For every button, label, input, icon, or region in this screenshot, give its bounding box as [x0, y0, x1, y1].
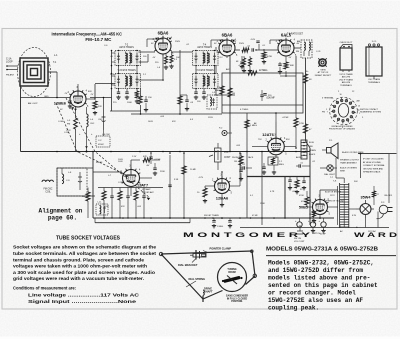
svg-text:FM ANT RECEPT: FM ANT RECEPT [315, 74, 332, 77]
svg-text:or record changer. Model: or record changer. Model [268, 290, 356, 297]
wire x230 vert [229, 56, 231, 152]
svg-text:Models 05WG-2732, 05WG-2752C,: Models 05WG-2732, 05WG-2752C, [268, 260, 374, 267]
wire IF strip [139, 51, 156, 53]
svg-text:BLUE: BLUE [309, 142, 315, 144]
converter osc chain B [87, 114, 89, 127]
right cluster C2 [103, 98, 105, 131]
svg-text:CONNECT EXTERNAL: CONNECT EXTERNAL [363, 164, 386, 167]
svg-text:AT HIGH VOLUME,: AT HIGH VOLUME, [363, 161, 382, 164]
svg-text:GANG CONDENSER: GANG CONDENSER [226, 295, 249, 298]
svg-text:Socket voltages are shown on t: Socket voltages are shown on the schemat… [13, 245, 156, 250]
wire x247 vert [246, 113, 248, 218]
svg-text:1.5K: 1.5K [110, 74, 115, 76]
rule under models [266, 255, 396, 257]
tube V6 12BA6 AF [215, 179, 230, 194]
wire B+ bus y153 [21, 151, 311, 153]
svg-text:12BA6: 12BA6 [216, 196, 229, 201]
svg-text:470K: 470K [301, 201, 306, 203]
svg-text:TERMINALS: TERMINALS [340, 84, 352, 87]
svg-text:470K: 470K [299, 195, 304, 197]
FM antenna terminals [7, 65, 18, 67]
svg-text:-1.2V: -1.2V [198, 177, 204, 179]
left column parts [239, 156, 243, 165]
resistor x230 [228, 88, 232, 97]
grommet detail [319, 59, 326, 66]
pilot lamp [327, 165, 333, 171]
svg-text:models listed above and pre-: models listed above and pre- [268, 275, 370, 282]
wire V7 [275, 122, 277, 138]
resistor B+ 2 [304, 124, 308, 133]
svg-text:12AT6: 12AT6 [262, 132, 274, 137]
phono jack [222, 130, 227, 135]
svg-text:85V: 85V [286, 139, 290, 141]
svg-text:ON-OFF: ON-OFF [384, 195, 393, 197]
svg-text:35W4: 35W4 [361, 196, 372, 200]
wire converter [56, 72, 58, 98]
IF can drawing [340, 48, 352, 70]
wire mid bus y114 [131, 113, 222, 115]
svg-text:C-2B: C-2B [64, 132, 69, 134]
dial corner pulleys [159, 252, 162, 255]
svg-text:T-6 RATIO DET: T-6 RATIO DET [287, 33, 304, 36]
svg-text:1 MEG: 1 MEG [217, 226, 224, 228]
svg-text:-1.0V: -1.0V [250, 39, 256, 41]
wire OT to speaker [343, 178, 345, 183]
svg-text:22K: 22K [98, 106, 102, 108]
svg-text:AM & FM: AM & FM [342, 81, 351, 84]
svg-text:7: 7 [327, 111, 328, 113]
wire bottom bus y218 [93, 217, 334, 219]
svg-text:IN FULLY CLOSED: IN FULLY CLOSED [227, 298, 248, 300]
tube V7 12AT6 [268, 138, 285, 155]
cap V6 out [242, 166, 244, 169]
svg-text:SHAFT: SHAFT [204, 290, 213, 294]
audio RC row [288, 179, 291, 181]
bypass caps under T3 [118, 89, 120, 93]
svg-text:POSITION.: POSITION. [231, 301, 243, 303]
svg-text:coupling peak.: coupling peak. [268, 305, 319, 312]
svg-text:MODELS 05WG-2731A & 05WG-2752B: MODELS 05WG-2731A & 05WG-2752B [266, 247, 378, 253]
svg-text:a 300 volt scale used for plat: a 300 volt scale used for plate and scre… [13, 270, 155, 275]
svg-text:AM: AM [297, 40, 300, 43]
svg-text:FM RF: FM RF [96, 162, 103, 164]
svg-text:470K: 470K [267, 56, 273, 58]
tube V4 12BE6 conv [70, 91, 86, 107]
svg-text:TRANS ASSEMBLY: TRANS ASSEMBLY [340, 162, 358, 165]
svg-text:15WG-2752E also uses an AF: 15WG-2752E also uses an AF [268, 297, 363, 304]
svg-text:68K: 68K [290, 65, 294, 67]
svg-text:FM ANT: FM ANT [6, 74, 15, 77]
svg-text:3.9K: 3.9K [174, 179, 179, 181]
svg-text:TERMINALS: TERMINALS [368, 81, 381, 84]
svg-text:AM IF TRANS: AM IF TRANS [119, 46, 134, 49]
svg-text:MEG: MEG [279, 164, 284, 166]
svg-text:AM LOOP: AM LOOP [28, 102, 38, 105]
dial cord path [161, 251, 252, 254]
IF transformer T3 [115, 74, 141, 89]
svg-text:270K: 270K [299, 123, 305, 125]
svg-text:50 MF: 50 MF [320, 234, 326, 236]
RC cluster A [138, 96, 142, 104]
inter-row stubs [118, 66, 120, 74]
tube V2 6BA6 2nd IF [219, 40, 235, 56]
volume control [215, 148, 222, 162]
wire y225 run [240, 227, 389, 229]
svg-text:Intermediate Frequency....AM–4: Intermediate Frequency....AM–455 KC [52, 31, 123, 36]
svg-text:10: 10 [339, 94, 341, 96]
y218 bus parts [213, 218, 215, 221]
wire y172 run [93, 171, 122, 173]
FM det coil box [96, 204, 108, 215]
svg-text:1 MEG: 1 MEG [250, 125, 257, 127]
svg-text:1.5V: 1.5V [132, 156, 137, 158]
wire x310 vert [305, 58, 307, 141]
svg-text:W A R D: W A R D [354, 232, 398, 239]
svg-text:22 MEG: 22 MEG [259, 70, 268, 72]
svg-text:SPEAKER LEADS: SPEAKER LEADS [363, 171, 381, 174]
svg-text:CONT: CONT [224, 157, 231, 159]
svg-text:INSTALLATION WIRES: INSTALLATION WIRES [331, 125, 353, 128]
svg-text:C-2C: C-2C [66, 130, 71, 132]
svg-text:terminal and chassis ground. P: terminal and chassis ground. Plate, scre… [13, 257, 144, 262]
svg-text:AM IF TRANS: AM IF TRANS [197, 46, 212, 49]
svg-text:1M: 1M [234, 161, 237, 163]
loop antenna L1 [18, 48, 51, 97]
svg-text:C-9B: C-9B [118, 182, 123, 184]
output socket comb [301, 140, 307, 159]
svg-text:FM: FM [67, 124, 70, 126]
svg-text:140V: 140V [148, 121, 153, 123]
svg-text:AVC: AVC [226, 68, 231, 71]
svg-text:4.7K: 4.7K [270, 191, 275, 193]
svg-text:Line voltage .................: Line voltage ..................117 Volts… [28, 293, 140, 298]
svg-text:SPEAKER & OUTPUT: SPEAKER & OUTPUT [340, 159, 360, 162]
svg-text:1ST AMP: 1ST AMP [142, 188, 151, 191]
svg-text:80V: 80V [88, 91, 92, 93]
svg-text:150K: 150K [260, 203, 265, 205]
wire V6 audio [221, 172, 223, 179]
svg-text:DIAL LIGHT: DIAL LIGHT [324, 173, 336, 176]
FM osc trimmer [79, 172, 81, 190]
svg-text:10K: 10K [176, 57, 180, 59]
AC plug [379, 205, 388, 214]
drive shaft [202, 296, 204, 303]
svg-text:6.3V: 6.3V [352, 215, 357, 217]
svg-text:AT TOP OF: AT TOP OF [318, 71, 329, 74]
svg-text:FM–10.7 MC: FM–10.7 MC [85, 37, 112, 42]
speaker [331, 143, 338, 159]
tube V1 6BA6 1st IF [155, 38, 171, 54]
svg-text:LOOP: LOOP [6, 61, 13, 64]
svg-text:JACK: JACK [248, 156, 254, 159]
svg-text:220K: 220K [160, 171, 165, 173]
svg-text:117V: 117V [330, 195, 335, 197]
cap 220MF [263, 93, 266, 95]
svg-text:47 MF: 47 MF [252, 215, 258, 217]
V7 cathode network [268, 157, 278, 165]
svg-text:6BA6: 6BA6 [222, 33, 233, 38]
svg-text:250V: 250V [239, 43, 245, 45]
svg-text:BLUE OR BROWN: BLUE OR BROWN [325, 192, 342, 194]
svg-text:AM & FM: AM & FM [342, 76, 351, 79]
output transformer T8 [339, 183, 341, 228]
svg-text:GREEN: GREEN [309, 150, 316, 152]
svg-text:75V: 75V [258, 139, 262, 141]
svg-text:1M: 1M [82, 196, 85, 198]
svg-text:tube socket terminals. All vol: tube socket terminals. All voltages are … [13, 251, 157, 256]
svg-text:grid voltages were read with a: grid voltages were read with a vacuum tu… [13, 276, 144, 281]
wire rectifier [365, 218, 367, 228]
svg-text:.02 MF: .02 MF [282, 117, 289, 119]
RC cluster C [207, 95, 217, 109]
svg-text:RED: RED [309, 146, 314, 148]
dial drum hub [223, 276, 240, 283]
svg-text:DRUM: DRUM [228, 271, 235, 274]
wire x216 vert [215, 47, 217, 95]
wire y168 run [57, 167, 93, 169]
tube V9 35W4 rect [360, 204, 371, 215]
svg-text:2ND IF TRANS: 2ND IF TRANS [339, 78, 353, 81]
svg-text:page 60.: page 60. [48, 214, 77, 221]
resistor 2.2MEG [220, 86, 224, 94]
resistor 22MEG [248, 71, 257, 75]
resistor AVC 2 [245, 120, 249, 128]
svg-text:250V: 250V [175, 41, 181, 43]
svg-text:TUBE SOCKET VOLTAGES: TUBE SOCKET VOLTAGES [56, 236, 121, 242]
tube V8 50B5 output [313, 200, 328, 215]
V1 cathode parts [162, 54, 164, 56]
wire 50B5 [319, 190, 321, 200]
svg-text:FM: FM [322, 112, 325, 114]
svg-text:SWITCH: SWITCH [312, 233, 321, 235]
resistor plate V7 [294, 118, 298, 127]
bus junction dots [56, 151, 58, 153]
svg-text:M O N T G O M E R Y: M O N T G O M E R Y [183, 232, 312, 239]
wire y95 run [214, 94, 235, 96]
wire x111.5 vert [111, 50, 113, 111]
svg-text:BLACK OR GREEN: BLACK OR GREEN [340, 167, 357, 170]
svg-text:100V: 100V [118, 159, 123, 161]
cathode resistor 50B5 [313, 211, 316, 217]
FM osc coil L5 [42, 180, 53, 182]
resistor converter grid [93, 101, 97, 109]
grid resistor V6 [203, 188, 207, 197]
svg-text:WIRE: WIRE [340, 171, 346, 173]
resistor bank audio [98, 187, 163, 189]
svg-text:COIL: COIL [45, 191, 51, 193]
tube V3 6AL5 det [278, 40, 294, 56]
svg-text:Conditions of measurement a: Conditions of measurement are: [13, 286, 76, 291]
svg-text:IF UNIT OSCILLATES: IF UNIT OSCILLATES [363, 158, 384, 161]
svg-text:C-2A: C-2A [58, 120, 63, 123]
svg-text:FM: FM [296, 51, 299, 53]
svg-text:Signal Input .................: Signal Input .......................None [28, 299, 137, 304]
svg-text:AC: AC [340, 230, 343, 233]
svg-text:1M: 1M [232, 93, 235, 95]
wire shield box top [21, 97, 71, 99]
svg-text:T-3 FM IF TRANS: T-3 FM IF TRANS [117, 69, 136, 72]
wire x140 vert [140, 89, 142, 97]
svg-text:-6.5V: -6.5V [238, 65, 244, 67]
svg-text:FM OSC: FM OSC [44, 189, 53, 191]
filter caps [310, 222, 315, 227]
svg-text:B-: B- [356, 227, 358, 229]
RC cluster B [178, 96, 182, 104]
wire V5 [130, 160, 132, 170]
wire x163 tube drop [162, 54, 164, 80]
svg-text:sented on this page in cabinet: sented on this page in cabinet [268, 282, 378, 289]
svg-text:VOL CONT: VOL CONT [294, 241, 305, 243]
wire x296 vert [295, 56, 297, 113]
svg-text:4.7 MEG: 4.7 MEG [240, 109, 249, 111]
V2 cathode parts [226, 56, 228, 58]
wire x262 vert [261, 152, 263, 226]
svg-text:455KC: 455KC [98, 144, 105, 146]
svg-text:50B5: 50B5 [299, 206, 308, 210]
svg-text:T-5 FM IF TRANS: T-5 FM IF TRANS [195, 69, 214, 72]
wire y196 run [57, 195, 95, 197]
wire bottom right [377, 212, 379, 228]
svg-text:FM DET TRANS: FM DET TRANS [204, 214, 219, 217]
RC network detector [242, 48, 249, 52]
svg-text:1.0V: 1.0V [232, 41, 237, 43]
svg-text:OSC TRANS: OSC TRANS [368, 78, 381, 81]
svg-text:6BA6: 6BA6 [158, 31, 169, 36]
wire top rails [147, 38, 163, 40]
IF transformer T5 [193, 74, 219, 89]
svg-text:47K: 47K [121, 206, 125, 208]
capacitor coupling V7 [298, 164, 300, 167]
svg-text:CHECK SLOT: CHECK SLOT [340, 42, 354, 44]
grid resistor 50B5 [305, 197, 309, 205]
ratio det parts [285, 56, 287, 62]
converter osc chain A [74, 109, 77, 111]
capacitor C4 [68, 100, 71, 102]
svg-text:voltages were taken with a 100: voltages were taken with a 1000 ohm-per-… [13, 264, 147, 269]
svg-text:FROM FRONT OF CHASSIS: FROM FRONT OF CHASSIS [329, 128, 356, 131]
svg-text:OSC: OSC [90, 123, 95, 125]
capacitor .006MF [260, 94, 263, 96]
svg-text:GROUND WIRE AND: GROUND WIRE AND [363, 167, 384, 170]
svg-text:1ST IF TRANS: 1ST IF TRANS [339, 73, 353, 76]
gang dashed link [56, 103, 128, 176]
svg-text:and 15WG-2752D differ from: and 15WG-2752D differ from [268, 267, 363, 274]
svg-text:90V: 90V [354, 181, 358, 183]
wire x95 vert [94, 84, 96, 99]
ratio detector transformer T6 [301, 40, 312, 58]
svg-text:100K: 100K [127, 102, 132, 104]
on-off switch [299, 225, 301, 231]
IF transformer T4 [193, 51, 219, 66]
svg-text:10 MF: 10 MF [190, 169, 197, 171]
svg-text:DIAL BRACKET: DIAL BRACKET [178, 263, 198, 267]
svg-text:NUMBERING SYSTEM: NUMBERING SYSTEM [360, 112, 381, 114]
IF transformer T2 [115, 51, 141, 66]
svg-text:GREEN OR YELLOW: GREEN OR YELLOW [325, 201, 344, 203]
svg-text:47K: 47K [143, 156, 147, 158]
wire AVC loop [222, 73, 303, 113]
bypass caps under T5 [195, 89, 197, 93]
resistor line cord [373, 191, 376, 197]
svg-text:13: 13 [358, 105, 360, 107]
svg-text:GND: GND [44, 96, 49, 98]
FM osc box [57, 168, 87, 196]
wire audio thick [247, 176, 310, 178]
svg-text:47K: 47K [172, 121, 176, 123]
wire y84 run [95, 83, 115, 85]
svg-text:DIAL STRING: DIAL STRING [189, 277, 206, 281]
svg-text:12AT7: 12AT7 [137, 184, 148, 188]
svg-text:100V: 100V [118, 161, 123, 163]
svg-text:12BE6: 12BE6 [54, 101, 67, 106]
svg-text:PHONO: PHONO [232, 157, 240, 159]
svg-text:VIEW: VIEW [320, 70, 325, 72]
svg-text:AM: AM [357, 100, 360, 103]
svg-text:VOL: VOL [224, 152, 229, 154]
svg-text:120V: 120V [208, 117, 213, 119]
svg-text:SWITCH CONTACT: SWITCH CONTACT [360, 108, 379, 111]
wire x180 vert [179, 50, 181, 114]
svg-text:MEG: MEG [215, 90, 220, 92]
svg-text:BLACK: BLACK [309, 153, 316, 156]
svg-text:6 TERMINAL: 6 TERMINAL [322, 97, 335, 100]
tube V5 12AT7 FM [123, 170, 140, 187]
dial drum [218, 263, 247, 292]
resistor B+ 1 [304, 74, 308, 83]
wire right margin [388, 154, 390, 203]
band switch detail [330, 97, 358, 125]
osc can drawing [366, 47, 382, 76]
svg-text:AUDIO: AUDIO [296, 156, 303, 159]
wire left vert x20 [20, 88, 22, 152]
svg-text:L-4 OSC: L-4 OSC [102, 134, 111, 136]
svg-text:OSC: OSC [98, 119, 103, 121]
pointer [193, 254, 206, 258]
svg-text:POINTER CLAMP: POINTER CLAMP [210, 247, 232, 251]
